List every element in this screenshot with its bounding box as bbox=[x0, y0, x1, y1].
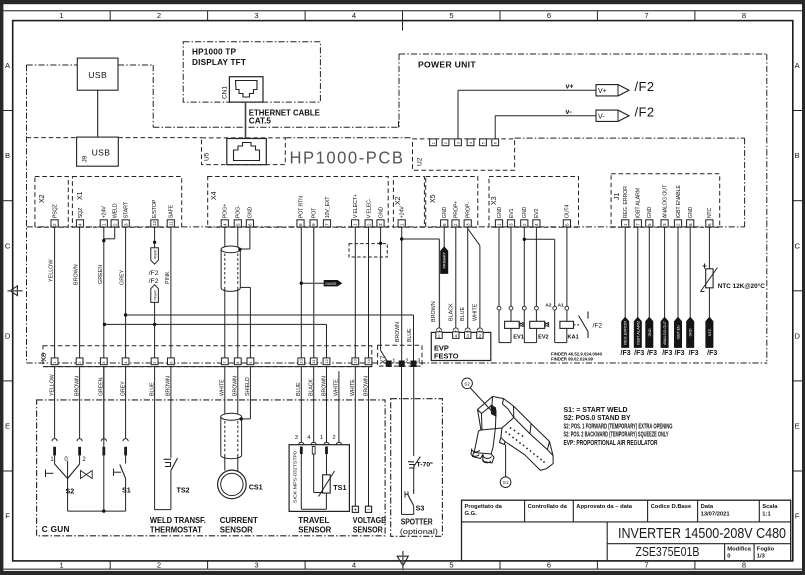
svg-text:0: 0 bbox=[727, 553, 730, 559]
svg-text:1: 1 bbox=[438, 333, 441, 339]
wire SQZ brown X1.4 to X8 pin2 bbox=[74, 227, 80, 358]
svg-text:2: 2 bbox=[157, 11, 161, 20]
ethernet cable label bbox=[249, 108, 321, 125]
svg-text:U2: U2 bbox=[417, 157, 424, 166]
title block header texts bbox=[465, 504, 779, 518]
connector X1 pin 4 SQZ bbox=[76, 207, 83, 227]
connector X2 right dashed box bbox=[393, 177, 424, 228]
frame row ticks left and right bbox=[3, 111, 802, 472]
current sensor CS1 coil bbox=[218, 470, 263, 499]
wire SAFE pink X1.11 to X8 pin6 bbox=[165, 227, 171, 358]
svg-text:CURRENT: CURRENT bbox=[220, 516, 258, 525]
off-page flag GND /F3 bbox=[646, 317, 653, 347]
frame column numbers top bbox=[59, 11, 746, 20]
svg-text:FESTO: FESTO bbox=[434, 352, 459, 361]
svg-text:A2: A2 bbox=[545, 303, 551, 309]
svg-text:Progettato da: Progettato da bbox=[465, 504, 503, 510]
svg-text:J1: J1 bbox=[614, 193, 621, 201]
svg-text:1: 1 bbox=[399, 223, 404, 226]
C GUN dash-dot box bbox=[37, 400, 386, 536]
svg-text:EV2: EV2 bbox=[534, 209, 540, 219]
svg-text:U5: U5 bbox=[204, 152, 211, 161]
component name labels bottom bbox=[150, 516, 386, 535]
svg-text:1: 1 bbox=[59, 11, 63, 20]
svg-text:INVERTER 14500-208V C480: INVERTER 14500-208V C480 bbox=[618, 525, 786, 542]
connector X3 dashed box bbox=[489, 177, 579, 228]
frame row letters left bbox=[5, 61, 11, 520]
svg-text:/F2: /F2 bbox=[593, 322, 603, 329]
wire X3 OUT4 to KA1 A1 bbox=[566, 227, 568, 321]
svg-text:REG. ERROR: REG. ERROR bbox=[623, 186, 629, 218]
off-page flag IGBT ENABLE /F3 bbox=[675, 317, 682, 347]
svg-text:GND: GND bbox=[378, 207, 384, 219]
connector J1 pin 5 GND bbox=[646, 207, 653, 227]
X8 pin 7 bbox=[221, 358, 228, 365]
connector X1 pin 1 +24V bbox=[100, 206, 107, 227]
wire U2 pin6 to V- flag bbox=[495, 116, 596, 139]
label /F2 /F2 between flags bbox=[149, 270, 159, 285]
svg-text:POG-: POG- bbox=[236, 205, 242, 218]
svg-text:2: 2 bbox=[676, 223, 681, 226]
svg-text:S2: S2 bbox=[464, 381, 470, 386]
svg-text:6: 6 bbox=[547, 561, 551, 570]
+24V rail to EVP pin1 bbox=[402, 239, 440, 332]
svg-text:/F3: /F3 bbox=[647, 350, 657, 357]
svg-text:IGBT.ALARM: IGBT.ALARM bbox=[636, 321, 640, 345]
travel sensor internal wiring bbox=[301, 454, 326, 509]
svg-text:PROP+: PROP+ bbox=[453, 201, 459, 218]
ethernet jack CN1 bbox=[222, 77, 264, 102]
svg-text:ANALOG OUT: ANALOG OUT bbox=[662, 184, 668, 218]
svg-text:/F2: /F2 bbox=[635, 79, 655, 94]
connector X5 pin 2 PROP+ bbox=[452, 201, 459, 227]
svg-text:GND: GND bbox=[689, 328, 693, 336]
off-page flag REG ERROR /F3 bbox=[622, 317, 629, 347]
svg-text:Data: Data bbox=[701, 504, 714, 510]
off-page flag IGBT ALARM /F3 bbox=[634, 317, 641, 347]
svg-text:1/3: 1/3 bbox=[757, 553, 766, 559]
svg-text:C GUN: C GUN bbox=[42, 525, 70, 534]
svg-text:IGBT ALARM: IGBT ALARM bbox=[636, 187, 642, 218]
svg-text:V ELEC-: V ELEC- bbox=[367, 198, 373, 218]
svg-text:1: 1 bbox=[320, 435, 323, 441]
wire START grey X1.3 to X8 pin4 bbox=[120, 227, 126, 358]
svg-text:NTC 12K@20°C: NTC 12K@20°C bbox=[718, 282, 765, 290]
svg-text:CAT.5: CAT.5 bbox=[249, 117, 272, 126]
svg-text:3: 3 bbox=[123, 223, 128, 226]
svg-text:D: D bbox=[794, 331, 800, 340]
X8 pin 2 bbox=[76, 358, 83, 365]
connector J1 pin 6 NTC bbox=[706, 208, 713, 227]
FINDER relay part numbers bbox=[551, 351, 602, 361]
connector X4 pin 2 V ELEC- bbox=[365, 198, 372, 227]
frame column ticks top bbox=[110, 11, 695, 30]
svg-text:USB: USB bbox=[88, 70, 107, 80]
potentiometer TS1 bbox=[319, 471, 347, 497]
valve coil EV2 bbox=[530, 321, 549, 340]
connector J1 dashed box bbox=[611, 174, 720, 228]
svg-text:PSQZ: PSQZ bbox=[52, 204, 58, 219]
connector X3 pin 4 EV2 bbox=[533, 209, 540, 227]
svg-text:IGBT.EN: IGBT.EN bbox=[677, 325, 681, 339]
dashed filter box on V ELECT wires bbox=[349, 244, 387, 257]
gun wires into connector pins bbox=[52, 367, 128, 456]
svg-text:GREY: GREY bbox=[120, 269, 126, 285]
svg-text:DISPLAY TFT: DISPLAY TFT bbox=[192, 58, 246, 67]
USB box top bbox=[77, 58, 118, 90]
junction dot green at gun bus bbox=[102, 509, 105, 512]
svg-text:1:1: 1:1 bbox=[762, 511, 771, 517]
wire shield bottom to X8 pin9 bbox=[240, 287, 250, 358]
modifica and foglio cells bbox=[727, 546, 774, 559]
X8 pin 3 bbox=[100, 358, 107, 365]
connector X1 pin 12 E/STOP bbox=[151, 199, 158, 227]
svg-text:HP1000 TP: HP1000 TP bbox=[192, 48, 236, 57]
relay terminal circles bbox=[497, 306, 569, 310]
connector J1 pin 2 IGBT ENABLE bbox=[674, 185, 681, 227]
svg-text:3: 3 bbox=[417, 359, 420, 365]
junction dot GND at shield bbox=[238, 248, 241, 251]
connector X3 pin 3 EV1 bbox=[507, 209, 514, 227]
svg-text:POT RTN: POT RTN bbox=[298, 196, 304, 218]
svg-text:GND: GND bbox=[647, 207, 653, 219]
off-page flag E/STOP to /F2 (down) bbox=[151, 248, 159, 264]
svg-text:C: C bbox=[794, 241, 800, 250]
connector X1 pin 11 SAFE bbox=[167, 204, 174, 227]
wire PROP- to EVP pin3 blue bbox=[460, 227, 468, 332]
svg-text:X8: X8 bbox=[41, 353, 48, 362]
svg-text:7: 7 bbox=[644, 561, 648, 570]
shield cylinder on POG pair bbox=[221, 246, 240, 291]
svg-text:X1: X1 bbox=[77, 191, 84, 200]
svg-text:PINK: PINK bbox=[165, 271, 171, 284]
svg-text:V-: V- bbox=[598, 114, 605, 121]
connector X1 pin 3 START bbox=[122, 201, 129, 227]
KA1 contact with /F2 bbox=[574, 312, 603, 339]
connector X7 dashed box bbox=[378, 345, 422, 366]
connector J1 pin 1 REG. ERROR bbox=[622, 186, 629, 227]
svg-text:4: 4 bbox=[78, 223, 83, 226]
voltage sensor terminals bbox=[352, 367, 371, 514]
off-page flag ANALOG OUT /F3 bbox=[661, 317, 668, 347]
wire V ELEC- X4.2 to X8 pin14 bbox=[368, 227, 370, 358]
svg-text:GND: GND bbox=[522, 207, 528, 219]
thermistor NTC 12K@20C bbox=[701, 264, 765, 292]
svg-text:7: 7 bbox=[644, 11, 648, 20]
svg-text:4: 4 bbox=[534, 223, 539, 226]
connector X5 pin 3 PROP- bbox=[464, 202, 471, 227]
svg-text:Scala: Scala bbox=[762, 504, 778, 510]
bottom chain line through X8/X7 pins bbox=[27, 362, 767, 364]
svg-text:Modifica: Modifica bbox=[727, 546, 751, 552]
svg-text:8: 8 bbox=[688, 223, 693, 226]
svg-text:YELLOW: YELLOW bbox=[49, 259, 55, 282]
travel sensor internal pins bbox=[300, 447, 328, 455]
X8 pin 14 bbox=[365, 358, 372, 365]
svg-text:T-70°: T-70° bbox=[417, 461, 434, 469]
frame row letters right bbox=[794, 61, 800, 520]
svg-text:B: B bbox=[5, 151, 10, 160]
svg-text:8: 8 bbox=[442, 223, 447, 226]
connector X4 pin 6 GND bbox=[246, 207, 253, 227]
dash-dot boundary around display section bbox=[27, 65, 399, 127]
X8 pin 5 bbox=[151, 358, 158, 365]
svg-text:/F3: /F3 bbox=[634, 350, 644, 357]
svg-text:Controllato da: Controllato da bbox=[528, 504, 568, 510]
legend text S1 S2 EVP bbox=[564, 405, 673, 447]
V- off-page arrow to /F2 bbox=[566, 104, 655, 121]
svg-text:6: 6 bbox=[547, 11, 551, 20]
gun common bus wire bbox=[68, 510, 126, 512]
svg-text:SICK MPS-032TSTP0: SICK MPS-032TSTP0 bbox=[293, 450, 298, 503]
wire GND X4.6 to shield top bbox=[240, 227, 250, 249]
wire PROP+ to EVP pin4 black bbox=[449, 227, 456, 332]
V+ off-page arrow to /F2 bbox=[566, 79, 655, 96]
labels A2 A1 bbox=[545, 303, 564, 309]
svg-text:3: 3 bbox=[465, 223, 470, 226]
svg-text:E: E bbox=[795, 422, 800, 431]
svg-text:F: F bbox=[795, 512, 800, 521]
X7 pin squares 1 2 3 bbox=[386, 359, 421, 368]
spotter wires from X7 bbox=[402, 367, 414, 515]
svg-text:E/STOP: E/STOP bbox=[152, 199, 158, 218]
wire to chassis flag bbox=[301, 282, 324, 284]
horizontal rail green to X8 pin12 bbox=[105, 324, 327, 358]
U2 pins 1-6 bbox=[430, 139, 499, 146]
connector X5 dashed box bbox=[426, 177, 478, 228]
junction dot X3 GND2 branch bbox=[523, 238, 526, 241]
valve coil EV1 bbox=[505, 321, 524, 340]
wire E/STOP with /F2 flags bbox=[154, 227, 156, 358]
relay coil KA1 bbox=[560, 321, 579, 340]
X8 pin 11 bbox=[310, 358, 317, 365]
weld gun isometric drawing bbox=[471, 397, 553, 471]
svg-text:4: 4 bbox=[222, 223, 227, 226]
svg-text:X5: X5 bbox=[430, 194, 437, 203]
wire +24V/WELD green to X8 pin3 bbox=[98, 227, 115, 358]
connector X4 pin 8 POT RTN bbox=[297, 196, 304, 227]
connector X4 pin 9 POT bbox=[310, 207, 317, 227]
connector X4 pin 4 POG+ bbox=[221, 204, 228, 227]
switch S1 bbox=[114, 455, 131, 511]
svg-text:/F3: /F3 bbox=[662, 350, 672, 357]
svg-text:OUT4: OUT4 bbox=[565, 205, 571, 219]
connector U2 dashed box bbox=[413, 139, 515, 170]
svg-text:GREEN: GREEN bbox=[98, 265, 104, 284]
svg-text:2: 2 bbox=[479, 333, 482, 339]
wire shield to X8 pin9 lower bbox=[242, 367, 251, 419]
svg-text:D: D bbox=[5, 331, 11, 340]
wire J1 NTC pin bbox=[708, 227, 710, 317]
svg-text:5: 5 bbox=[565, 223, 570, 226]
callout S1 circle with leader bbox=[500, 445, 511, 488]
horizontal rail grey to X7 pin3 bbox=[126, 315, 414, 364]
svg-text:TS1: TS1 bbox=[333, 483, 346, 492]
connector X4 pin 3 GND bbox=[377, 207, 384, 227]
svg-text:X2: X2 bbox=[395, 196, 402, 205]
svg-text:6: 6 bbox=[248, 223, 253, 226]
svg-text:2: 2 bbox=[157, 561, 161, 570]
svg-text:GND: GND bbox=[688, 207, 694, 219]
svg-text:3: 3 bbox=[378, 223, 383, 226]
svg-text:BLACK: BLACK bbox=[449, 303, 455, 321]
X8 pin 13 bbox=[352, 358, 359, 365]
svg-text:WHITE: WHITE bbox=[472, 303, 478, 321]
wire PSQZ yellow X2 to X8 pin1 bbox=[49, 227, 55, 358]
svg-text:BLUE: BLUE bbox=[460, 307, 466, 321]
svg-text:X4: X4 bbox=[211, 191, 218, 200]
svg-text:2: 2 bbox=[52, 223, 57, 226]
svg-text:KA1: KA1 bbox=[568, 334, 579, 340]
svg-text:USB: USB bbox=[92, 148, 111, 158]
svg-text:13: 13 bbox=[353, 358, 358, 363]
svg-text:SQZ: SQZ bbox=[78, 207, 84, 218]
svg-text:/F3: /F3 bbox=[674, 350, 684, 357]
svg-text:11: 11 bbox=[168, 221, 173, 226]
svg-text:PRIMARY: PRIMARY bbox=[443, 251, 447, 268]
svg-text:EVP: PROPORTIONAL AIR REGULATO: EVP: PROPORTIONAL AIR REGULATOR bbox=[564, 438, 658, 447]
off-page flag chassis bbox=[324, 281, 341, 286]
wire X3 EV2 to coil bbox=[535, 227, 537, 321]
svg-text:13/07/2021: 13/07/2021 bbox=[701, 511, 731, 517]
callout S2 circle with leader bbox=[462, 378, 494, 414]
svg-text:HP1000-PCB: HP1000-PCB bbox=[290, 148, 405, 168]
connector X4 pin 1 V ELECT+ bbox=[352, 194, 359, 227]
svg-text:WELD TRANSF.: WELD TRANSF. bbox=[150, 516, 206, 525]
left boundary chain line bbox=[26, 65, 28, 363]
svg-text:V ELECT+: V ELECT+ bbox=[353, 194, 359, 218]
ethernet cable wire bbox=[245, 102, 247, 138]
centering mark left bbox=[8, 286, 23, 296]
svg-text:POG+: POG+ bbox=[223, 204, 229, 218]
svg-text:Codice D.Base: Codice D.Base bbox=[651, 504, 692, 510]
svg-text:4: 4 bbox=[352, 561, 356, 570]
svg-text:BROWN: BROWN bbox=[431, 301, 437, 322]
svg-text:1: 1 bbox=[623, 223, 628, 226]
svg-text:GND: GND bbox=[497, 207, 503, 219]
connector X8 dashed box bbox=[41, 346, 372, 367]
svg-text:S2: S2 bbox=[66, 487, 75, 496]
svg-text:G.G.: G.G. bbox=[465, 511, 478, 517]
junction dot WELD joins +24V wire bbox=[102, 239, 105, 242]
svg-text:5: 5 bbox=[449, 11, 453, 20]
junction dot on E/STOP wire bbox=[153, 241, 156, 244]
title block grid lines bbox=[525, 500, 791, 561]
svg-text:FINDER 99.02.024.99: FINDER 99.02.024.99 bbox=[551, 357, 593, 362]
svg-text:9: 9 bbox=[311, 223, 316, 226]
labels /F3 under flags bbox=[621, 350, 718, 357]
connector X4 pin 5 POG- bbox=[234, 205, 241, 227]
X8 pin 6 bbox=[168, 358, 175, 365]
travel sensor wires and pin numbers bbox=[295, 367, 342, 445]
svg-text:SENSOR: SENSOR bbox=[220, 526, 253, 535]
svg-text:ANALOG.OUT: ANALOG.OUT bbox=[663, 320, 667, 345]
svg-text:v-: v- bbox=[566, 109, 573, 116]
svg-text:2: 2 bbox=[522, 223, 527, 226]
wire V ELECT+ X4.1 to X8 pin13 bbox=[354, 227, 356, 358]
svg-text:A1: A1 bbox=[558, 303, 564, 309]
svg-text:REG.ERROR: REG.ERROR bbox=[624, 320, 628, 344]
svg-text:PROP-: PROP- bbox=[466, 202, 472, 218]
svg-text:BROWN: BROWN bbox=[74, 264, 80, 285]
junction dot GND in filter box bbox=[379, 242, 382, 245]
svg-text:7: 7 bbox=[635, 223, 640, 226]
thermostat TS2 loop bbox=[155, 367, 171, 510]
svg-text:F: F bbox=[5, 512, 10, 521]
svg-text:1: 1 bbox=[353, 223, 358, 226]
svg-text:7: 7 bbox=[325, 223, 330, 226]
svg-text:E: E bbox=[5, 422, 10, 431]
USB connector J9 bbox=[77, 137, 119, 166]
junction dot green wire to travel-sensor rail bbox=[103, 323, 106, 326]
wire POT X4.9 down to X8 pin11 bbox=[313, 227, 315, 358]
connector J1 pin 7 IGBT ALARM bbox=[634, 187, 641, 227]
svg-text:SENSOR: SENSOR bbox=[353, 526, 383, 535]
connector X2 right pin 1 +24V bbox=[398, 206, 405, 227]
svg-text:WELD: WELD bbox=[113, 203, 119, 218]
junction dot grey wire to X7 rail bbox=[124, 313, 127, 316]
frame column numbers bottom bbox=[59, 561, 746, 570]
svg-text:/F2: /F2 bbox=[149, 278, 159, 285]
connector X3 pin 2 GND bbox=[521, 207, 528, 227]
svg-text:8: 8 bbox=[742, 11, 746, 20]
connector X2 left dashed box bbox=[35, 177, 68, 228]
svg-text:12: 12 bbox=[324, 358, 329, 363]
svg-text:Foglio: Foglio bbox=[757, 546, 775, 552]
svg-text:CN1: CN1 bbox=[222, 86, 229, 99]
svg-text:1: 1 bbox=[101, 223, 106, 226]
switch S3 bbox=[405, 490, 424, 513]
svg-text:PRIMARY: PRIMARY bbox=[153, 290, 157, 301]
wire POG- X4.5 through shield to X8 pin8 bbox=[237, 227, 239, 358]
ethernet jack U5 with dashed box bbox=[202, 138, 286, 165]
svg-text:(optional): (optional) bbox=[400, 527, 438, 536]
svg-text:3: 3 bbox=[254, 11, 258, 20]
svg-text:/F3: /F3 bbox=[688, 350, 698, 357]
wire U2 pin3 to V+ flag bbox=[458, 90, 596, 139]
svg-text:v+: v+ bbox=[566, 84, 574, 91]
svg-text:J9: J9 bbox=[82, 155, 89, 162]
connector X1 dashed box bbox=[72, 177, 181, 228]
svg-text:10V_EXT: 10V_EXT bbox=[325, 196, 331, 219]
svg-text:IGBT ENABLE: IGBT ENABLE bbox=[676, 185, 682, 219]
svg-text:S3: S3 bbox=[416, 504, 425, 513]
chain line through connector pins bbox=[27, 226, 745, 228]
svg-text:8: 8 bbox=[742, 561, 746, 570]
junction dot +24V rail bbox=[400, 237, 403, 240]
svg-text:3: 3 bbox=[509, 223, 514, 226]
svg-text:SENSOR: SENSOR bbox=[298, 526, 331, 535]
PCB dashed top edge segments bbox=[27, 138, 745, 227]
X8 pin 1 bbox=[51, 358, 58, 365]
off-page flag X5 GND bbox=[441, 247, 448, 273]
svg-text:/F2: /F2 bbox=[635, 104, 655, 119]
wire +24V X2.1 down to X7 pin2 bbox=[401, 227, 403, 364]
wire POT RTN X4.8 down to X8 pin10 bbox=[300, 227, 302, 358]
svg-text:V+: V+ bbox=[598, 88, 607, 95]
svg-text:5: 5 bbox=[449, 561, 453, 570]
svg-text:NTC: NTC bbox=[708, 328, 712, 336]
off-page flag NTC /F3 bbox=[706, 317, 713, 347]
svg-text:EV1: EV1 bbox=[509, 209, 515, 219]
svg-text:12: 12 bbox=[152, 220, 157, 226]
svg-text:/F3: /F3 bbox=[621, 350, 631, 357]
svg-text:5: 5 bbox=[647, 223, 652, 226]
svg-text:BLUE: BLUE bbox=[407, 328, 413, 342]
svg-text:Approvato da – data: Approvato da – data bbox=[576, 504, 633, 510]
X8 wire color labels below bbox=[49, 374, 369, 396]
svg-text:−: − bbox=[367, 507, 370, 513]
